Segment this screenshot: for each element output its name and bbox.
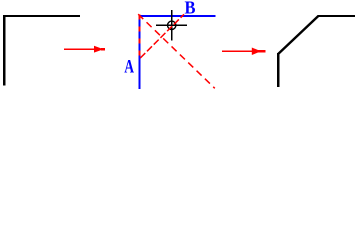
red dashed diagonal line from corner to lower right [138, 14, 215, 88]
crosshair cursor: aperture circle [168, 21, 176, 29]
red arrow 1: tip nub [101, 48, 105, 50]
red arrow 2: shaft [222, 51, 253, 53]
red arrow 2: tip nub [257, 50, 266, 52]
red dashed chamfer preview line from point A to point B [140, 14, 184, 58]
middle figure: blue horizontal line (line B) [139, 15, 216, 17]
red arrow 1: head [94, 46, 104, 53]
crosshair cursor: horizontal arm [156, 25, 187, 26]
crosshair cursor: vertical arm [171, 10, 172, 41]
svg-text:A: A [124, 57, 134, 77]
red arrow 1: shaft [64, 49, 96, 51]
middle figure: blue vertical line (line A) [139, 15, 141, 89]
right figure: vertical line [277, 53, 279, 87]
red arrow 2: head [252, 48, 261, 56]
left figure: original corner, horizontal line [3, 15, 80, 17]
right figure: chamfer diagonal line [278, 16, 318, 54]
right figure: chamfered corner, horizontal line [318, 15, 355, 17]
left figure: original corner, vertical line [3, 15, 6, 86]
svg-text:B: B [185, 0, 196, 18]
red dashed highlight on vertical line (trimmed part, corner to point A) [139, 15, 141, 58]
